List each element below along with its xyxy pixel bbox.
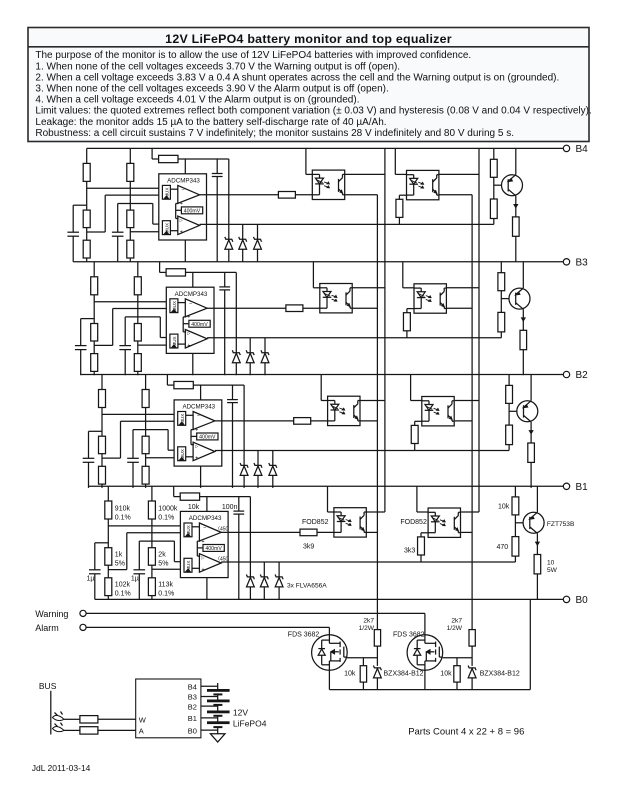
mosfet source wire xyxy=(424,661,426,690)
svg-text:1/2W: 1/2W xyxy=(359,625,375,632)
terminal B2 xyxy=(563,371,569,377)
svg-text:B0: B0 xyxy=(188,726,197,735)
wire block1 opto2 collector stub xyxy=(440,173,480,175)
node B0 rail wire xyxy=(95,598,564,600)
svg-text:BUS: BUS xyxy=(39,681,57,691)
mosfet source wire xyxy=(328,661,330,690)
svg-text:102k: 102k xyxy=(115,581,131,588)
svg-text:10: 10 xyxy=(547,559,555,566)
wire block4 opto1 collector stub xyxy=(366,511,385,513)
resistor 2k7 1/2W (warning gate) xyxy=(469,630,475,647)
wire xyxy=(98,729,136,731)
wire W link xyxy=(64,718,80,720)
cell monitor block 4 (B1-B0) xyxy=(89,486,544,599)
ground xyxy=(210,734,225,742)
svg-text:2k: 2k xyxy=(158,551,166,558)
svg-text:100n: 100n xyxy=(222,504,238,511)
svg-text:5%: 5% xyxy=(115,560,125,567)
svg-text:FDS 3682: FDS 3682 xyxy=(288,632,320,639)
wire warning gate node xyxy=(443,657,472,659)
svg-text:The purpose of the monitor is: The purpose of the monitor is to allow t… xyxy=(35,50,471,61)
svg-text:910k: 910k xyxy=(115,505,131,512)
terminal Alarm xyxy=(80,624,86,630)
svg-text:12V LiFePO4 battery monitor an: 12V LiFePO4 battery monitor and top equa… xyxy=(165,32,452,46)
terminal Warning xyxy=(80,610,86,616)
svg-text:Warning: Warning xyxy=(35,609,68,619)
wire battery to ground xyxy=(217,727,219,734)
svg-text:1/2W: 1/2W xyxy=(447,625,463,632)
svg-text:12V: 12V xyxy=(233,708,248,718)
wire block2 opto2 emitter stub xyxy=(447,307,472,309)
svg-text:FZT753B: FZT753B xyxy=(547,521,575,528)
svg-text:4. When a cell voltage exceeds: 4. When a cell voltage exceeds 4.01 V th… xyxy=(35,95,359,106)
svg-text:10k: 10k xyxy=(188,504,200,511)
svg-text:〈450: 〈450 xyxy=(215,556,229,562)
svg-text:10k: 10k xyxy=(344,670,356,677)
title box xyxy=(28,28,589,142)
bus squiggle A xyxy=(53,727,65,732)
svg-text:3. When none of the cell volta: 3. When none of the cell voltages exceed… xyxy=(35,84,388,95)
svg-text:2k7: 2k7 xyxy=(451,618,462,625)
svg-text:〈450: 〈450 xyxy=(215,527,229,533)
svg-text:5%: 5% xyxy=(158,560,168,567)
cell monitor block 1 (B4-B3) xyxy=(67,148,522,261)
wire block3 opto2 collector stub xyxy=(455,400,479,402)
wire block3 opto1 emitter stub xyxy=(360,420,377,422)
wire alarm opto bus (emitters) xyxy=(471,195,473,630)
svg-text:470: 470 xyxy=(497,544,509,551)
wire block3 opto2 emitter stub xyxy=(455,420,472,422)
mosfet body circle xyxy=(312,635,348,671)
wire bus trunk xyxy=(50,691,52,735)
wire block1 opto1 emitter stub xyxy=(345,194,378,196)
svg-text:W: W xyxy=(139,715,147,724)
svg-text:10k: 10k xyxy=(440,670,452,677)
resistor bus W xyxy=(80,716,98,723)
node B4 rail wire xyxy=(87,147,564,149)
svg-text:BZX384-B12: BZX384-B12 xyxy=(480,670,520,677)
wire warning opto bus (collectors) xyxy=(384,148,386,512)
svg-text:B4: B4 xyxy=(576,144,589,155)
svg-text:1µ: 1µ xyxy=(131,576,139,583)
wire block4 opto2 collector stub xyxy=(461,511,479,513)
svg-text:1k: 1k xyxy=(115,551,123,558)
svg-text:2k7: 2k7 xyxy=(363,618,374,625)
wire block4 opto2 emitter stub xyxy=(461,531,472,533)
wire return riser to B0 xyxy=(529,599,531,689)
svg-text:0.1%: 0.1% xyxy=(158,514,174,521)
resistor 10k (alarm gate) xyxy=(362,658,364,666)
wire warning line xyxy=(86,612,425,614)
wire xyxy=(98,718,136,720)
svg-text:113k: 113k xyxy=(158,581,173,588)
svg-text:FOD852: FOD852 xyxy=(302,519,329,526)
svg-text:B3: B3 xyxy=(576,257,589,268)
zener BZX384-B12 (warning gate) xyxy=(471,646,473,666)
svg-text:JdL 2011-03-14: JdL 2011-03-14 xyxy=(32,763,91,773)
mosfet channel and gate xyxy=(425,642,436,644)
resistor 10k (warning gate) xyxy=(456,658,458,666)
monitor block box xyxy=(136,679,201,738)
wire block1 opto2 emitter stub xyxy=(440,194,473,196)
mosfet gate electrode xyxy=(343,647,345,658)
mosfet body diode xyxy=(416,640,418,649)
bus squiggle W xyxy=(53,715,65,720)
svg-text:A: A xyxy=(139,726,144,735)
node B2 rail wire xyxy=(81,374,564,376)
zener BZX384-B12 (alarm gate) xyxy=(376,646,378,666)
mosfet gate electrode xyxy=(438,647,440,658)
svg-text:Alarm: Alarm xyxy=(35,623,59,633)
terminal B3 xyxy=(563,259,569,265)
svg-text:1µ: 1µ xyxy=(87,576,95,583)
wire A link xyxy=(64,729,80,731)
wire warning drain xyxy=(424,613,426,634)
wire alarm line xyxy=(86,626,329,628)
svg-text:B2: B2 xyxy=(188,702,197,711)
svg-text:B1: B1 xyxy=(576,482,589,493)
svg-text:Limit values: the quoted extre: Limit values: the quoted extremes reflec… xyxy=(35,106,591,117)
svg-text:2. When a cell voltage exceeds: 2. When a cell voltage exceeds 3.83 V a … xyxy=(35,72,559,83)
wire block2 opto1 collector stub xyxy=(352,287,385,289)
cell monitor block 2 (B3-B2) xyxy=(75,262,530,375)
wire alarm drain xyxy=(328,627,330,634)
battery cells xyxy=(217,683,219,690)
svg-text:3k3: 3k3 xyxy=(404,547,415,554)
wire block4 opto1 emitter stub xyxy=(366,531,377,533)
wire source return line xyxy=(329,689,530,691)
svg-text:5W: 5W xyxy=(547,567,558,574)
mosfet body diode xyxy=(321,640,323,649)
terminal B1 xyxy=(563,483,569,489)
svg-text:B2: B2 xyxy=(576,370,589,381)
mosfet body circle xyxy=(407,635,443,671)
terminal B4 xyxy=(563,145,569,151)
resistor bus A xyxy=(80,727,98,734)
node B1 rail wire xyxy=(89,485,564,487)
svg-text:FOD852: FOD852 xyxy=(400,519,427,526)
resistor 2k7 1/2W (alarm gate) xyxy=(374,630,380,647)
wire block1 opto1 collector stub xyxy=(345,173,385,175)
svg-text:BZX384-B12: BZX384-B12 xyxy=(384,670,424,677)
wire alarm opto bus (collectors) xyxy=(478,148,480,512)
svg-text:1000k: 1000k xyxy=(158,505,178,512)
svg-text:1. When none of the cell volta: 1. When none of the cell voltages exceed… xyxy=(35,61,400,72)
svg-text:3x FLVA656A: 3x FLVA656A xyxy=(287,583,327,590)
wire alarm gate node xyxy=(347,657,378,659)
wire block2 opto2 collector stub xyxy=(447,287,479,289)
svg-text:0.1%: 0.1% xyxy=(158,590,174,597)
cell monitor block 3 (B2-B1) xyxy=(83,375,538,488)
mosfet drain wire xyxy=(424,635,426,644)
node B3 rail wire xyxy=(73,261,563,263)
mosfet channel and gate xyxy=(329,642,340,644)
wire block2 opto1 emitter stub xyxy=(352,307,377,309)
svg-text:3k9: 3k9 xyxy=(303,544,314,551)
svg-text:Parts Count 4 x 22 + 8 = 96: Parts Count 4 x 22 + 8 = 96 xyxy=(408,727,524,738)
svg-text:0.1%: 0.1% xyxy=(115,514,131,521)
wire warning opto bus (emitters) xyxy=(376,195,378,630)
svg-text:Robustness: a cell circuit sus: Robustness: a cell circuit sustains 7 V … xyxy=(35,128,514,139)
svg-text:B4: B4 xyxy=(188,683,197,692)
svg-text:10k: 10k xyxy=(498,503,510,510)
terminal B0 xyxy=(563,596,569,602)
wire block3 opto1 collector stub xyxy=(360,400,385,402)
svg-text:B3: B3 xyxy=(188,693,197,702)
svg-text:Leakage: the monitor adds 15 µ: Leakage: the monitor adds 15 µA to the b… xyxy=(35,117,386,128)
mosfet drain wire xyxy=(328,635,330,644)
svg-text:B1: B1 xyxy=(188,714,197,723)
svg-text:0.1%: 0.1% xyxy=(115,590,131,597)
svg-text:LiFePO4: LiFePO4 xyxy=(233,718,267,728)
svg-text:B0: B0 xyxy=(576,595,589,606)
